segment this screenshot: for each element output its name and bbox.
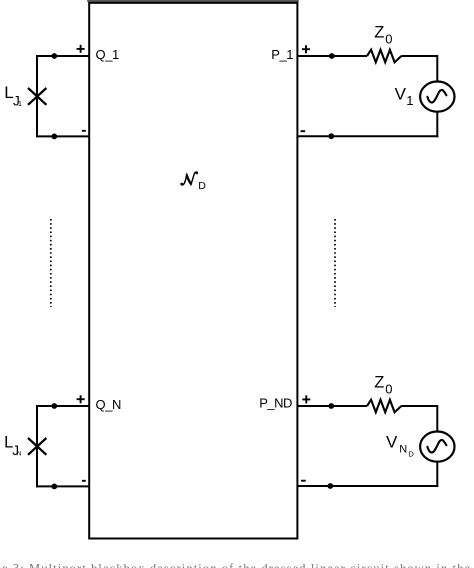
josephson junction LJ1	[28, 88, 46, 105]
josephson junction LJN	[28, 438, 46, 455]
continuation dots left	[50, 219, 52, 307]
node dot PND top	[328, 403, 334, 409]
svg-text:Z: Z	[374, 374, 384, 392]
wire Q1 left vertical	[36, 55, 38, 137]
wire QN left vertical	[36, 405, 38, 487]
svg-text:N: N	[17, 450, 22, 457]
svg-text:D: D	[408, 450, 414, 459]
label N_D (script N)	[181, 172, 198, 186]
svg-text:D: D	[198, 180, 206, 192]
label + (PND)	[302, 395, 310, 403]
node dot QN top	[51, 403, 57, 409]
node dot QN bottom	[51, 484, 57, 490]
svg-text:0: 0	[385, 382, 392, 397]
label - (Q1)	[82, 130, 86, 132]
resistor Z0 bottom	[367, 400, 401, 413]
label - (P1)	[301, 130, 306, 132]
svg-text:0: 0	[385, 32, 392, 47]
voltage source V1 sine	[427, 90, 446, 103]
resistor Z0 top	[367, 50, 401, 63]
wire source VND to bottom rail	[436, 462, 438, 487]
node dot Q1 top	[51, 53, 57, 59]
svg-text:e 3: Multiport blackbox descri: e 3: Multiport blackbox description of t…	[2, 561, 470, 568]
wire Q1 top	[37, 55, 90, 57]
wire PND bottom	[297, 485, 439, 487]
node dot Q1 bottom	[51, 134, 57, 140]
wire resistor to source VND	[401, 406, 437, 432]
label - (QN)	[82, 480, 86, 482]
wire QN bottom	[37, 485, 90, 487]
node dot P1 top	[329, 53, 335, 59]
voltage source VND circle	[420, 432, 454, 462]
blackbox network N_D	[89, 3, 297, 539]
label + (QN)	[77, 395, 85, 403]
svg-text:P_1: P_1	[271, 47, 293, 62]
label - (PND)	[301, 480, 306, 482]
label + (P1)	[302, 45, 310, 53]
wire Q1 bottom	[37, 135, 90, 137]
svg-text:V: V	[395, 85, 407, 104]
wire source V1 to bottom rail	[436, 112, 438, 138]
wire resistor to source V1	[401, 56, 437, 82]
wire P1 bottom	[297, 135, 439, 137]
svg-text:N: N	[399, 444, 407, 456]
voltage source VND sine	[427, 440, 446, 453]
svg-text:Z: Z	[374, 24, 384, 42]
label + (Q1)	[77, 45, 85, 53]
node dot P1 bottom	[328, 133, 334, 139]
svg-text:Q_1: Q_1	[96, 47, 120, 62]
svg-text:V: V	[386, 433, 398, 452]
svg-text:P_ND: P_ND	[259, 395, 292, 410]
svg-text:1: 1	[18, 99, 22, 108]
cropped gray top border remnant	[87, 0, 299, 2]
continuation dots right	[334, 219, 336, 307]
voltage source V1 circle	[420, 82, 454, 112]
wire QN top	[37, 405, 90, 407]
wire P1 top (box to resistor)	[297, 55, 368, 57]
wire PND top (box to resistor)	[297, 405, 368, 407]
svg-text:1: 1	[406, 93, 413, 108]
svg-text:Q_N: Q_N	[96, 397, 122, 412]
node dot PND bottom	[327, 483, 333, 489]
